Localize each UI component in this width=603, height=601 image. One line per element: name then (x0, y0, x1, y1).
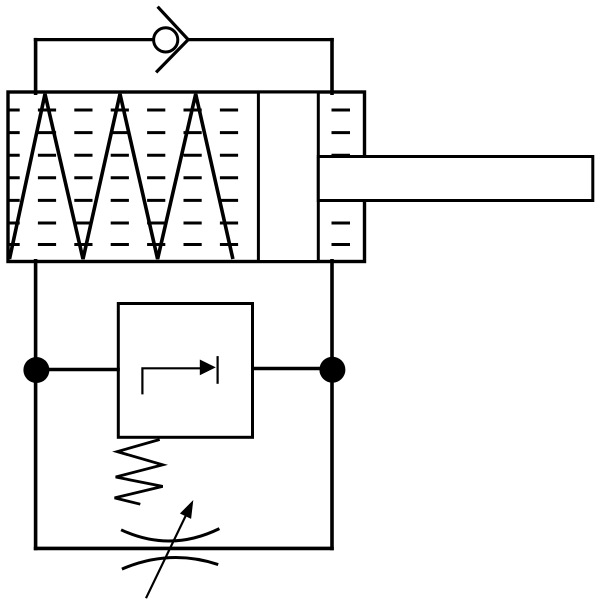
check valve CV1 (154, 7, 189, 73)
flow control valve FC1 (variable restrictor) (121, 500, 219, 598)
wire: right riser from top line down to cylinder cap (330, 38, 334, 95)
cylinder C1 barrel (8, 92, 365, 262)
spring S2 below valve V2 (115, 440, 163, 505)
wire: top line, right segment from check valve (187, 38, 334, 41)
wire: branch from valve V2 to node B (251, 367, 333, 370)
fluid hatching: dashed rows in rod-side chamber (332, 110, 351, 245)
piston P1 (258, 92, 318, 262)
valve V2 body (118, 304, 252, 438)
wire: right riser from cylinder down to bottom line (330, 259, 334, 550)
wire: bottom line (34, 547, 334, 551)
wire: left riser from cylinder down to bottom line (34, 259, 38, 550)
node B: right junction dot (319, 357, 345, 383)
wire: left riser from top line down to cylinder cap (34, 38, 38, 95)
fluid hatching: dashed rows in left chamber (7, 110, 251, 245)
piston rod (318, 157, 593, 201)
valve V2 internal arrow with stop bar (142, 356, 217, 394)
node A: left junction dot (23, 357, 49, 383)
spring S1 inside cylinder (10, 94, 233, 259)
wire: branch from node A to valve V2 (36, 368, 120, 371)
wire: top line, left segment to check valve (34, 38, 153, 41)
